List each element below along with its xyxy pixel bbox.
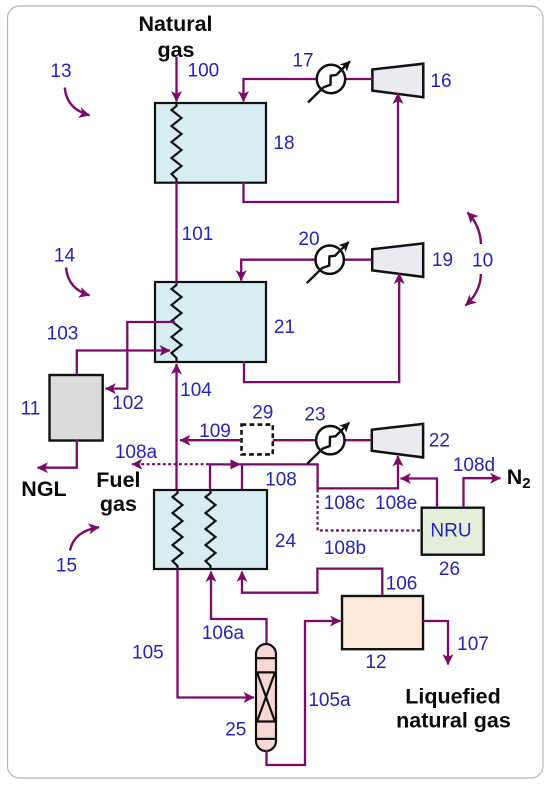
svg-text:25: 25 (225, 720, 246, 741)
heat exchanger 24 (154, 490, 267, 569)
svg-text:107: 107 (457, 634, 489, 655)
svg-text:gas: gas (100, 492, 137, 516)
separator 11 (50, 375, 103, 441)
wire 108 riser (210, 456, 398, 490)
svg-text:NRU: NRU (430, 521, 471, 542)
svg-text:20: 20 (298, 229, 319, 250)
wire into exchanger24 top (241, 464, 243, 489)
cooler 23 (307, 423, 349, 464)
svg-text:101: 101 (182, 224, 214, 245)
svg-text:natural gas: natural gas (396, 709, 511, 733)
svg-text:104: 104 (180, 380, 212, 401)
svg-text:108: 108 (265, 470, 297, 491)
svg-text:12: 12 (365, 652, 386, 673)
cooler 17 (308, 61, 350, 102)
dashed box 29 (242, 425, 273, 455)
wire 106 (242, 569, 382, 595)
wire 108e (401, 479, 438, 508)
svg-text:108c: 108c (324, 493, 365, 514)
svg-text:18: 18 (273, 133, 294, 154)
vessel 12 (342, 596, 423, 649)
svg-text:102: 102 (112, 393, 144, 414)
svg-text:103: 103 (47, 324, 79, 345)
svg-text:21: 21 (274, 317, 295, 338)
svg-text:106: 106 (386, 574, 418, 595)
svg-text:gas: gas (157, 38, 194, 62)
svg-text:19: 19 (432, 250, 453, 271)
svg-text:26: 26 (439, 559, 460, 580)
svg-text:11: 11 (21, 399, 41, 420)
curved arrow 10 lower (466, 274, 481, 306)
wire 100 natural gas feed (175, 57, 177, 102)
svg-text:23: 23 (304, 405, 325, 426)
curved arrow 14 (66, 268, 90, 296)
svg-text:22: 22 (429, 431, 450, 452)
dashed wire 108b (318, 490, 421, 531)
svg-text:108d: 108d (453, 455, 495, 476)
expander 16 (372, 64, 423, 97)
curved arrow 10 upper (468, 213, 481, 245)
NRU unit 26 (422, 508, 484, 555)
wire NGL outlet (38, 440, 77, 468)
curved arrow 15 (70, 527, 99, 550)
wire 107 liquefied gas outlet (423, 621, 449, 665)
svg-text:16: 16 (430, 71, 451, 92)
svg-text:24: 24 (275, 531, 297, 552)
wire expander22 to cooler23 to box29 (273, 439, 372, 441)
wire 101 (175, 182, 177, 283)
dashed wire 108a fuel gas (132, 463, 209, 465)
curved arrow 13 (65, 88, 90, 116)
svg-text:108a: 108a (115, 442, 158, 463)
wire exchanger21 loop to expander19 (244, 274, 399, 383)
wire 102 (106, 322, 176, 389)
expander 22 (372, 424, 423, 458)
wire 105 (178, 569, 255, 698)
svg-text:29: 29 (252, 402, 273, 423)
wire exchanger18 loop to expander16 (244, 94, 399, 203)
svg-text:10: 10 (472, 251, 493, 272)
wire 103 (77, 351, 170, 375)
svg-text:17: 17 (292, 51, 313, 72)
svg-text:Liquefied: Liquefied (405, 685, 501, 709)
cooler 20 (307, 242, 349, 283)
svg-text:13: 13 (50, 61, 71, 82)
svg-text:Natural: Natural (138, 12, 212, 36)
wire expander16 to cooler17 to exchanger18 (244, 79, 373, 102)
svg-text:NGL: NGL (21, 477, 66, 501)
svg-text:109: 109 (199, 421, 231, 442)
heat exchanger 21 (155, 282, 266, 362)
expander 19 (372, 243, 423, 277)
svg-text:108b: 108b (324, 538, 366, 559)
svg-text:15: 15 (56, 555, 77, 576)
wire expander19 to cooler20 to exchanger21 (241, 260, 372, 281)
wire 106a (211, 572, 267, 644)
svg-text:105: 105 (132, 643, 164, 664)
svg-text:105a: 105a (308, 690, 351, 711)
svg-text:100: 100 (188, 61, 220, 82)
svg-text:14: 14 (54, 246, 76, 267)
wire 109 (180, 439, 242, 441)
heat exchanger 18 (155, 103, 266, 183)
wire 104 (175, 364, 177, 490)
wire 105a (267, 621, 341, 765)
svg-text:106a: 106a (202, 623, 245, 644)
column 25 (256, 644, 276, 751)
arrowhead 108 flow (231, 459, 242, 469)
wire N2 outlet 108d (464, 478, 501, 507)
svg-text:108e: 108e (375, 493, 417, 514)
svg-text:Fuel: Fuel (96, 468, 140, 492)
